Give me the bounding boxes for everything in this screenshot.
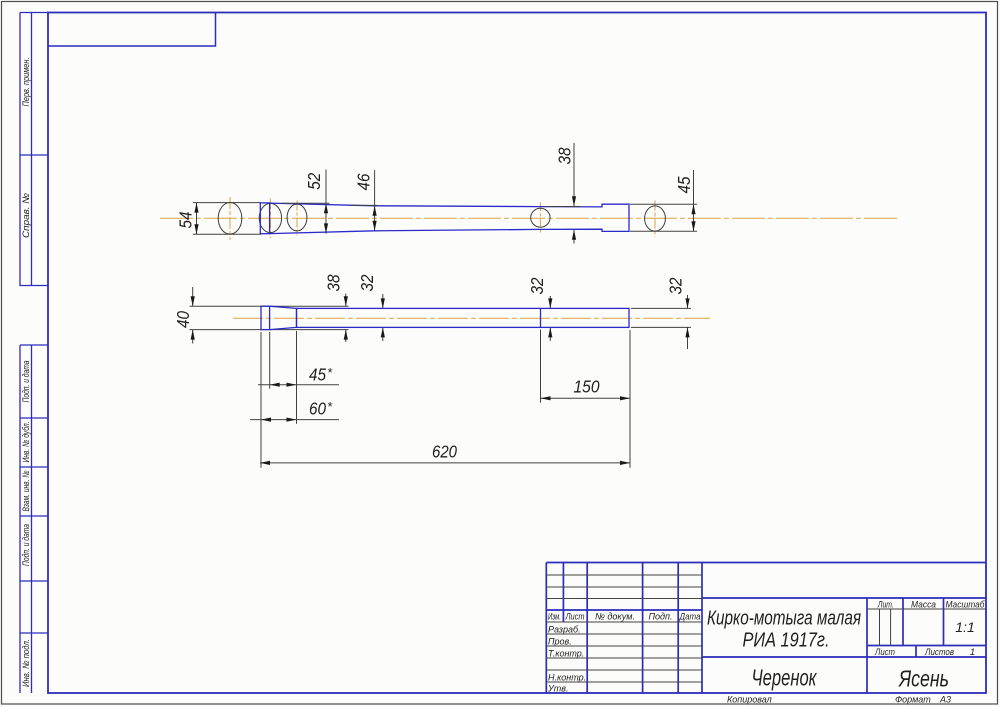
butt outline thin lines (40 section) [190,306,349,329]
top-left stamp rectangle [48,13,216,47]
svg-text:Лист: Лист [565,612,585,623]
dimension 38 bottom view [345,294,347,343]
svg-text:Подп. и дата: Подп. и дата [21,361,32,403]
svg-text:32: 32 [527,277,547,294]
svg-text:32: 32 [666,277,686,294]
dimension 45 right [693,170,695,231]
centerline bottom view [233,317,710,319]
dimension 52 [282,170,330,234]
svg-text:Инв. № дубл.: Инв. № дубл. [21,422,32,463]
cross-section ellipse 45 [645,206,666,231]
svg-text:Перв. примен.: Перв. примен. [21,58,32,107]
centerline top view [160,197,899,240]
dimension 40 [192,287,194,344]
svg-text:40: 40 [173,311,193,328]
svg-text:45: 45 [674,176,694,193]
bottom margin labels [727,695,951,705]
svg-text:Листов: Листов [924,647,954,658]
extension lines verticals [261,308,691,467]
svg-text:Формат: Формат [895,695,931,705]
cross-section circle 32 [531,208,550,227]
svg-text:54: 54 [176,211,196,228]
dimension 32 third [687,295,689,349]
svg-text:Изм.: Изм. [548,612,561,623]
left strip lower group [20,345,48,693]
svg-text:Черенок: Черенок [752,664,818,690]
svg-text:46: 46 [354,173,374,190]
svg-text:1: 1 [970,647,975,658]
svg-text:Взам. инв. №: Взам. инв. № [21,471,32,512]
svg-text:Разраб.: Разраб. [548,624,581,634]
butt outline thin lines (54 section) [193,203,261,235]
cross-section ellipse 52 [259,203,281,232]
svg-text:Масса: Масса [911,600,936,611]
dimension 60* [250,419,339,421]
svg-text:38: 38 [555,147,575,164]
title block thin lines [546,575,986,682]
svg-text:Пров.: Пров. [548,636,572,646]
svg-text:150: 150 [574,377,600,397]
svg-text:Подп.: Подп. [649,612,673,623]
dimension 32 second [549,296,551,341]
svg-text:45: 45 [309,364,326,384]
svg-text:Подп. и дата: Подп. и дата [21,524,32,566]
svg-text:Масштаб: Масштаб [946,600,986,611]
dimension 54 [196,203,198,235]
svg-text:Справ. №: Справ. № [21,193,32,238]
dimension 150 [541,397,631,399]
svg-text:Утв.: Утв. [547,684,568,694]
svg-text:60: 60 [309,399,326,419]
svg-text:620: 620 [432,442,457,462]
svg-text:32: 32 [357,274,377,291]
dimension 45* [258,384,339,386]
svg-text:Лист: Лист [874,647,895,658]
handle outline top view [260,203,629,234]
svg-text:Н.контр.: Н.контр. [548,672,586,682]
dimension 32 first [382,294,384,341]
svg-text:52: 52 [304,173,324,190]
svg-text:Инв. № подл.: Инв. № подл. [21,639,32,687]
cross-section ellipse 49 [287,204,307,231]
svg-text:Дата: Дата [679,612,701,623]
svg-text:Т.контр.: Т.контр. [548,648,584,658]
svg-text:№ докум.: № докум. [595,612,635,623]
svg-text:Кирко-мотыга малая: Кирко-мотыга малая [707,608,861,630]
svg-text:38: 38 [324,274,344,291]
cross-section ellipse 54 [218,203,242,235]
svg-text:РИА 1917г.: РИА 1917г. [743,629,830,651]
svg-text:Копировал: Копировал [727,695,772,705]
left strip labels [21,58,32,688]
svg-text:Ясень: Ясень [897,666,949,692]
title block small labels [548,612,701,623]
dimension 38 top view [546,143,580,244]
handle outline bottom view [261,306,629,329]
dimension 620 [260,462,630,464]
extension lines 45 right [630,204,697,231]
left strip upper group [20,13,48,286]
svg-text:1:1: 1:1 [955,619,974,635]
svg-text:Лит.: Лит. [877,600,894,611]
title block thick blue lines [546,563,986,694]
svg-text:А3: А3 [939,695,951,705]
dimension 46 [351,170,378,231]
